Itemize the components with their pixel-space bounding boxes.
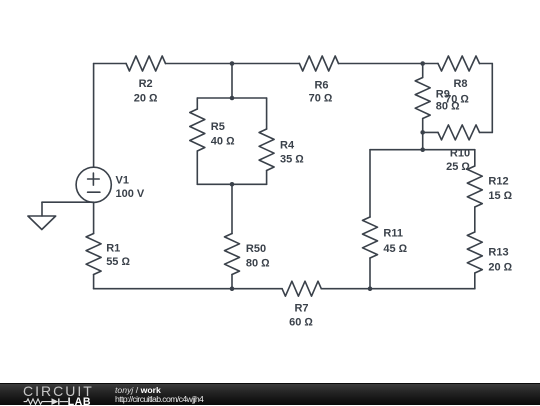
svg-text:25 Ω: 25 Ω (446, 161, 470, 173)
wire (369, 258, 371, 289)
svg-text:R9: R9 (436, 88, 450, 100)
svg-text:35 Ω: 35 Ω (280, 153, 304, 165)
wire (422, 64, 424, 78)
footer bar (0, 383, 540, 405)
svg-text:40 Ω: 40 Ω (211, 136, 235, 148)
svg-text:80 Ω: 80 Ω (436, 101, 460, 113)
svg-text:R2: R2 (139, 78, 153, 90)
svg-text:R1: R1 (106, 243, 120, 255)
node (230, 182, 235, 187)
svg-text:R4: R4 (280, 140, 295, 152)
svg-text:R8: R8 (453, 78, 467, 90)
svg-text:R5: R5 (211, 121, 225, 133)
resistor R2 (126, 56, 165, 71)
svg-text:70 Ω: 70 Ω (309, 92, 333, 104)
wire (474, 273, 476, 289)
svg-text:60 Ω: 60 Ω (289, 317, 313, 329)
wire (196, 98, 198, 109)
wire (231, 184, 233, 233)
wire (491, 64, 493, 133)
svg-text:V1: V1 (116, 174, 129, 186)
wire (93, 275, 95, 289)
svg-text:20 Ω: 20 Ω (134, 93, 158, 105)
resistor R12 (467, 166, 482, 207)
node (368, 286, 373, 291)
node (420, 147, 425, 152)
resistor R9 (415, 78, 430, 119)
node (230, 286, 235, 291)
resistor R4 (259, 129, 274, 171)
wire (369, 150, 371, 217)
wire (93, 64, 95, 168)
resistor R11 (363, 217, 378, 258)
resistor R1 (86, 234, 101, 275)
node (230, 96, 235, 101)
resistor R13 (467, 232, 482, 273)
svg-text:R12: R12 (488, 175, 508, 187)
wire: parallel box bottom (197, 183, 266, 185)
svg-text:R7: R7 (294, 303, 308, 315)
wire (480, 63, 493, 65)
wire (94, 63, 127, 65)
resistor R5 (190, 109, 205, 151)
wire (422, 119, 424, 133)
svg-text:45 Ω: 45 Ω (383, 243, 407, 255)
wire (166, 63, 300, 65)
node (420, 130, 425, 135)
resistor R10 (438, 125, 480, 140)
svg-text:R50: R50 (246, 243, 266, 255)
wire (474, 150, 476, 166)
wire (339, 63, 439, 65)
wire (266, 98, 268, 129)
wire (321, 288, 475, 290)
voltage source V1 (76, 167, 111, 202)
wire (196, 151, 198, 184)
wire (474, 207, 476, 232)
wire (231, 275, 233, 289)
svg-text:R6: R6 (314, 80, 328, 92)
wire (231, 64, 233, 99)
wire (370, 149, 475, 151)
node (420, 61, 425, 66)
svg-text:R13: R13 (488, 247, 508, 259)
wire (422, 132, 424, 149)
svg-text:100 V: 100 V (116, 188, 145, 200)
resistor R8 (438, 56, 480, 71)
svg-text:20 Ω: 20 Ω (488, 261, 512, 273)
svg-text:R11: R11 (383, 228, 403, 240)
wire (423, 131, 438, 133)
svg-text:55 Ω: 55 Ω (106, 256, 130, 268)
svg-text:15 Ω: 15 Ω (488, 190, 512, 202)
footer text (115, 386, 203, 405)
wire (93, 202, 95, 233)
wire (480, 131, 493, 133)
wire: parallel box top (197, 97, 266, 99)
resistor R6 (299, 56, 338, 71)
resistor R50 (225, 234, 240, 275)
ground (28, 202, 94, 229)
wire (94, 288, 283, 290)
CircuitLab logo (23, 386, 98, 406)
svg-text:80 Ω: 80 Ω (246, 258, 270, 270)
wire (266, 171, 268, 185)
node (230, 61, 235, 66)
resistor R7 (282, 281, 321, 296)
